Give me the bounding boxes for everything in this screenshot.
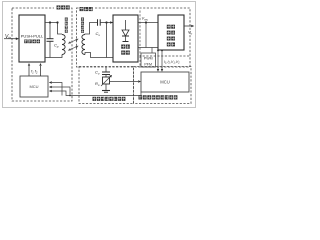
text 降压 line1	[167, 25, 175, 29]
wire feedback 2	[52, 87, 70, 96]
variable resistor Ro	[103, 77, 110, 84]
adjustable load dashed box	[79, 67, 134, 104]
full-bridge rectifier block	[113, 15, 138, 62]
caption adjustable electronic load	[93, 97, 126, 101]
capacitor Co	[102, 71, 110, 73]
junction node	[105, 21, 107, 23]
svg-text:PWM: PWM	[144, 56, 153, 60]
wire load branch	[105, 67, 107, 72]
flux coupling arrows	[70, 40, 77, 43]
label 发射线圈 (transmit coil) vertical	[65, 18, 68, 33]
svg-text:Vo: Vo	[188, 30, 193, 36]
svg-text:PFM: PFM	[144, 62, 152, 66]
svg-text:Cs: Cs	[96, 31, 101, 37]
outer border frame	[3, 2, 196, 108]
wire rectifier to regulator	[138, 22, 158, 24]
transmitter MCU block	[20, 76, 48, 97]
wire top receiver	[85, 23, 98, 35]
text 滤波 line3	[167, 37, 175, 41]
svg-text:PUSH-PULL: PUSH-PULL	[21, 34, 44, 39]
diode symbol	[125, 20, 127, 30]
buck/regulate/filter block	[158, 15, 184, 50]
text 整流 (rectify)	[121, 51, 130, 55]
svg-text:I1,I2,V1,V2: I1,I2,V1,V2	[164, 60, 180, 65]
regulation & protection dashed box	[134, 67, 192, 104]
inductor Lp transmit coil	[62, 35, 65, 55]
capacitor Cs series	[97, 19, 99, 25]
inner regulator dashed box	[140, 11, 190, 68]
wire drive f2	[40, 66, 42, 76]
wire Vout	[184, 25, 191, 27]
wire bottom receiver	[85, 53, 113, 58]
wire bottom tank	[45, 55, 62, 58]
wire Vin to push-pull	[4, 38, 16, 40]
text 稳压 line2	[167, 31, 175, 35]
capacitor Cp	[49, 23, 51, 39]
text 全桥 (full bridge)	[121, 45, 130, 49]
wire sample I/V to MCU	[157, 50, 159, 69]
text 输出 line4	[167, 42, 175, 46]
label 接收线圈 (receive coil) vertical	[81, 18, 84, 33]
receiver dashed box	[77, 8, 191, 67]
ground	[105, 84, 107, 91]
wire feedback 3	[52, 83, 62, 96]
svg-text:MCU: MCU	[160, 80, 170, 85]
text 自激电路 (self-excited circuit)	[24, 40, 40, 44]
PWM/PFM controller block	[141, 53, 156, 67]
push-pull self-oscillating circuit block	[19, 15, 45, 62]
svg-text:Cp: Cp	[54, 43, 59, 49]
label 接收端 (receiver)	[80, 7, 93, 11]
wire sample drop	[145, 23, 147, 48]
wire load sense to MCU	[110, 81, 139, 83]
caption regulation and protection circuit	[139, 95, 178, 99]
wire parallel branch	[106, 23, 108, 58]
svg-text:Vrec: Vrec	[142, 16, 149, 22]
svg-text:MCU: MCU	[29, 84, 38, 89]
svg-text:Co: Co	[95, 70, 100, 76]
wire drive f1	[28, 66, 30, 76]
junction node	[49, 21, 51, 23]
label 发射端 (transmitter)	[57, 5, 70, 9]
transmitter dashed box	[12, 8, 72, 101]
receiver MCU block	[141, 72, 189, 92]
wire top tank	[45, 23, 62, 35]
svg-text:f1 f2: f1 f2	[31, 69, 38, 75]
inductor Ls receive coil	[82, 35, 85, 55]
wire feedback 1	[52, 91, 141, 96]
svg-text:Ro: Ro	[95, 81, 100, 87]
